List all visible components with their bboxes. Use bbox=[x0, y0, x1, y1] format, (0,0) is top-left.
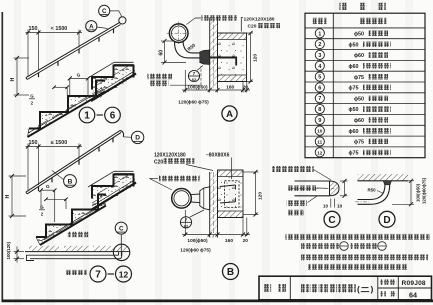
section bubble D bbox=[131, 131, 143, 143]
svg-text:): ) bbox=[371, 284, 374, 294]
near stair flight (section) bbox=[36, 195, 106, 246]
section circle C bbox=[324, 211, 340, 227]
svg-text:6: 6 bbox=[318, 85, 321, 91]
page frame left border bbox=[1, 12, 3, 302]
table title 适用表 bbox=[340, 3, 347, 10]
svg-text:120X120X180: 120X120X180 bbox=[154, 153, 186, 159]
svg-text:C20: C20 bbox=[248, 24, 257, 30]
concrete block 120x120x180 bbox=[218, 33, 247, 82]
plan wall face line bbox=[25, 251, 114, 253]
label 相同材质封头 bbox=[287, 185, 316, 191]
leader to pipe bbox=[187, 18, 196, 25]
section bubble B bbox=[64, 175, 77, 188]
dimension line below detail B bbox=[182, 210, 250, 238]
svg-text:60: 60 bbox=[158, 50, 164, 56]
flange side view bbox=[200, 187, 210, 210]
svg-text:ϕ75: ϕ75 bbox=[354, 75, 364, 81]
page frame bottom border bbox=[2, 299, 433, 302]
pipe bend up to soffit bbox=[358, 181, 390, 204]
svg-text:11: 11 bbox=[317, 140, 322, 145]
pipe centerline bbox=[291, 187, 334, 189]
handrail end hook bbox=[120, 131, 124, 137]
G dimension bbox=[41, 189, 55, 191]
svg-text:3: 3 bbox=[318, 53, 321, 59]
label 栏杆平面 bbox=[66, 270, 87, 275]
svg-text:160: 160 bbox=[225, 238, 233, 244]
note line 4 或镶部件，由设计人定。法兰用粘结剂粘牢。 bbox=[308, 264, 407, 270]
far stair flight (upper) bbox=[91, 66, 134, 104]
svg-text:≤ 1500: ≤ 1500 bbox=[51, 140, 67, 146]
section bubble C bbox=[99, 5, 110, 16]
svg-text:6: 6 bbox=[110, 111, 116, 122]
near stair flight (section) bbox=[28, 81, 106, 138]
svg-text:ϕ75: ϕ75 bbox=[349, 86, 359, 92]
end cap hemispherical with hatch bbox=[330, 181, 340, 196]
label 页次 bbox=[381, 291, 386, 296]
table outer border bbox=[305, 13, 425, 158]
small offset dimension bbox=[46, 198, 66, 200]
row number circles 1-12 bbox=[315, 29, 324, 157]
pipe centerline crosshair bbox=[167, 22, 192, 46]
svg-text:G: G bbox=[30, 94, 34, 99]
pipe end view (double circle) bbox=[172, 189, 192, 209]
svg-text:62: 62 bbox=[184, 224, 189, 229]
svg-text:A: A bbox=[89, 23, 94, 30]
svg-text:120(ϕ60 ϕ75): 120(ϕ60 ϕ75) bbox=[180, 248, 211, 254]
ceiling soffit hatch band bbox=[358, 174, 409, 181]
label 1 - 6 bbox=[79, 107, 95, 123]
section circle A bbox=[222, 106, 237, 121]
table row lines bbox=[305, 39, 425, 147]
label 7 - 12 bbox=[90, 266, 106, 282]
svg-text:120(ϕ60ϕ75): 120(ϕ60ϕ75) bbox=[421, 177, 426, 204]
label 钢管或不锈钢管 bbox=[159, 176, 200, 182]
svg-text:12: 12 bbox=[317, 150, 323, 155]
top dimension 150 / ≤1500 bbox=[26, 144, 83, 192]
dim 120 right side bbox=[243, 172, 259, 215]
svg-text:62: 62 bbox=[192, 77, 197, 82]
svg-text:9: 9 bbox=[318, 118, 321, 124]
table header row divider bbox=[305, 27, 425, 29]
svg-text:20: 20 bbox=[243, 84, 249, 90]
section circle D bbox=[379, 211, 395, 227]
svg-text:64: 64 bbox=[409, 290, 417, 299]
svg-text:< 1500: < 1500 bbox=[51, 26, 68, 32]
svg-text:ϕ75: ϕ75 bbox=[354, 140, 364, 146]
detail ref bubble below flange bbox=[190, 210, 204, 217]
wall section bbox=[210, 172, 218, 238]
wall section (two faces + hatch) bbox=[210, 18, 218, 89]
slab hatch marks near flight bbox=[38, 65, 130, 126]
section bubble A bbox=[86, 21, 97, 32]
svg-text:B: B bbox=[68, 178, 73, 185]
handrail (double line) bbox=[26, 131, 120, 193]
svg-text:H: H bbox=[5, 194, 11, 198]
table column divider bbox=[332, 13, 334, 158]
detail ref bubble at flange bbox=[197, 66, 203, 71]
small offset dimension bbox=[54, 86, 67, 88]
pipe stub to flange bbox=[191, 193, 200, 196]
svg-text:120: 120 bbox=[253, 54, 259, 62]
label 栏杆立面 bbox=[68, 232, 89, 237]
10 10 dims bbox=[330, 199, 332, 208]
header 编号 bbox=[313, 18, 327, 25]
left end return hook bbox=[27, 255, 35, 260]
svg-text:R50: R50 bbox=[368, 188, 377, 193]
svg-text:ϕ50: ϕ50 bbox=[354, 96, 364, 102]
svg-text:ϕ60: ϕ60 bbox=[349, 64, 359, 70]
svg-text:8: 8 bbox=[318, 107, 321, 113]
svg-text:100(120): 100(120) bbox=[6, 241, 11, 259]
label 焊接并打磨抛光 bbox=[272, 166, 314, 172]
bend of wall rod to flange bbox=[175, 42, 200, 58]
plan wall hatching bbox=[29, 246, 59, 252]
slab hatch marks near flight (bottom) bbox=[44, 174, 130, 240]
svg-text:100(ϕ50): 100(ϕ50) bbox=[187, 84, 208, 90]
svg-text:G: G bbox=[40, 205, 44, 210]
svg-text:12: 12 bbox=[119, 270, 129, 280]
handrail end circle bbox=[119, 17, 126, 24]
G dimension bbox=[70, 77, 88, 79]
svg-text:ϕ50: ϕ50 bbox=[349, 42, 359, 48]
handrail (double line) bbox=[26, 23, 120, 78]
label 图名 bbox=[264, 284, 272, 292]
dimension line below detail A bbox=[182, 70, 250, 93]
section cut line bbox=[120, 234, 122, 256]
label φ25圆钢做/连墙扶手 bbox=[148, 74, 173, 80]
svg-text:120: 120 bbox=[258, 192, 264, 200]
anchor bars with hooks bbox=[220, 185, 236, 187]
svg-text:G: G bbox=[77, 72, 81, 78]
note line 1 注：1.扶手安装在混凝土墙上时，固定件做法为预埋件， bbox=[286, 234, 430, 240]
svg-text:–80X80X6: –80X80X6 bbox=[206, 152, 230, 158]
svg-text:10: 10 bbox=[317, 129, 323, 134]
svg-text:C20: C20 bbox=[154, 159, 163, 165]
svg-text:ϕ75: ϕ75 bbox=[349, 151, 359, 157]
svg-text:D: D bbox=[383, 215, 390, 226]
svg-text:120X120X180: 120X120X180 bbox=[244, 17, 275, 23]
svg-text:100(ϕ50): 100(ϕ50) bbox=[415, 183, 420, 202]
svg-text:2: 2 bbox=[318, 42, 321, 48]
svg-text:B: B bbox=[227, 267, 234, 278]
svg-text:100(ϕ50): 100(ϕ50) bbox=[187, 238, 208, 244]
svg-text:150: 150 bbox=[29, 140, 38, 146]
far stair flight (upper) bbox=[91, 175, 134, 213]
label 钢管或不 / 锈钢管 bbox=[287, 201, 308, 207]
svg-text:ϕ60: ϕ60 bbox=[349, 129, 359, 135]
svg-text:1: 1 bbox=[84, 111, 90, 122]
note line 3 2.护口法兰，钢管配用铜制，不锈钢管配用不锈钢质 bbox=[301, 255, 428, 261]
svg-text:ϕ60: ϕ60 bbox=[354, 53, 364, 59]
title block vertical dividers bbox=[289, 276, 291, 300]
svg-text:20: 20 bbox=[243, 238, 249, 244]
rail brackets bbox=[39, 138, 114, 191]
svg-text:150: 150 bbox=[29, 26, 38, 32]
svg-text:D: D bbox=[135, 135, 140, 142]
svg-text:C: C bbox=[328, 215, 335, 226]
right end return into wall bbox=[119, 252, 122, 259]
svg-text:H: H bbox=[10, 77, 16, 81]
svg-text:ϕ50: ϕ50 bbox=[354, 32, 364, 38]
svg-text:C: C bbox=[102, 8, 107, 15]
row material texts bbox=[349, 32, 365, 157]
svg-text:R09J08: R09J08 bbox=[402, 280, 426, 287]
label 钢管或不锈钢管 (top) bbox=[195, 17, 201, 19]
svg-text:10: 10 bbox=[323, 204, 329, 209]
drawing title 楼梯靠墙扶手(二) bbox=[301, 284, 309, 292]
svg-text:5: 5 bbox=[318, 75, 321, 81]
svg-text:ϕ50: ϕ50 bbox=[349, 107, 359, 113]
top dimension 150 / <1500 bbox=[26, 30, 83, 78]
svg-text:(: ( bbox=[357, 284, 360, 294]
header 材质做法 bbox=[360, 18, 387, 25]
dim right of cap bbox=[340, 181, 348, 196]
concrete block bbox=[218, 170, 244, 218]
section circle B bbox=[223, 264, 239, 280]
title block outer border bbox=[259, 276, 432, 300]
svg-text:ϕ60: ϕ60 bbox=[354, 118, 364, 124]
svg-text:G: G bbox=[46, 184, 50, 190]
note line 2 节点A详见(x)，节点B详见(x)。 bbox=[301, 243, 339, 249]
svg-text:C: C bbox=[119, 225, 124, 232]
section bubble above plan bbox=[115, 222, 127, 234]
svg-text:10: 10 bbox=[337, 204, 343, 209]
label 图集号 bbox=[380, 279, 396, 284]
dim 120 right side bbox=[247, 33, 253, 82]
title block mid horizontal divider bbox=[378, 287, 432, 289]
embedded plate 80x80 dashed bbox=[225, 181, 240, 208]
svg-text:1: 1 bbox=[318, 31, 321, 37]
svg-text:160: 160 bbox=[226, 84, 234, 90]
pipe centerline dashes bbox=[355, 201, 369, 203]
embedded rod through wall with hook bbox=[210, 57, 237, 59]
100(120) dimension bbox=[14, 247, 25, 263]
enlarged end detail circle bbox=[113, 244, 129, 260]
svg-text:A: A bbox=[226, 109, 233, 120]
H dimension left bbox=[14, 58, 30, 95]
handrail pipe section (double circle) bbox=[169, 24, 188, 43]
rail brackets bbox=[39, 29, 114, 78]
svg-text:7: 7 bbox=[95, 270, 101, 281]
handrail in plan (double line) bbox=[30, 254, 119, 256]
pipe walls bbox=[295, 180, 330, 182]
svg-text:120(ϕ60 ϕ75): 120(ϕ60 ϕ75) bbox=[178, 100, 209, 106]
flange at soffit bbox=[383, 181, 391, 185]
H dimension left bbox=[9, 176, 27, 216]
flange at wall bbox=[200, 50, 210, 65]
dim 60 vertical bbox=[164, 41, 166, 63]
svg-text:7: 7 bbox=[318, 96, 321, 102]
right dim bbox=[392, 181, 414, 205]
